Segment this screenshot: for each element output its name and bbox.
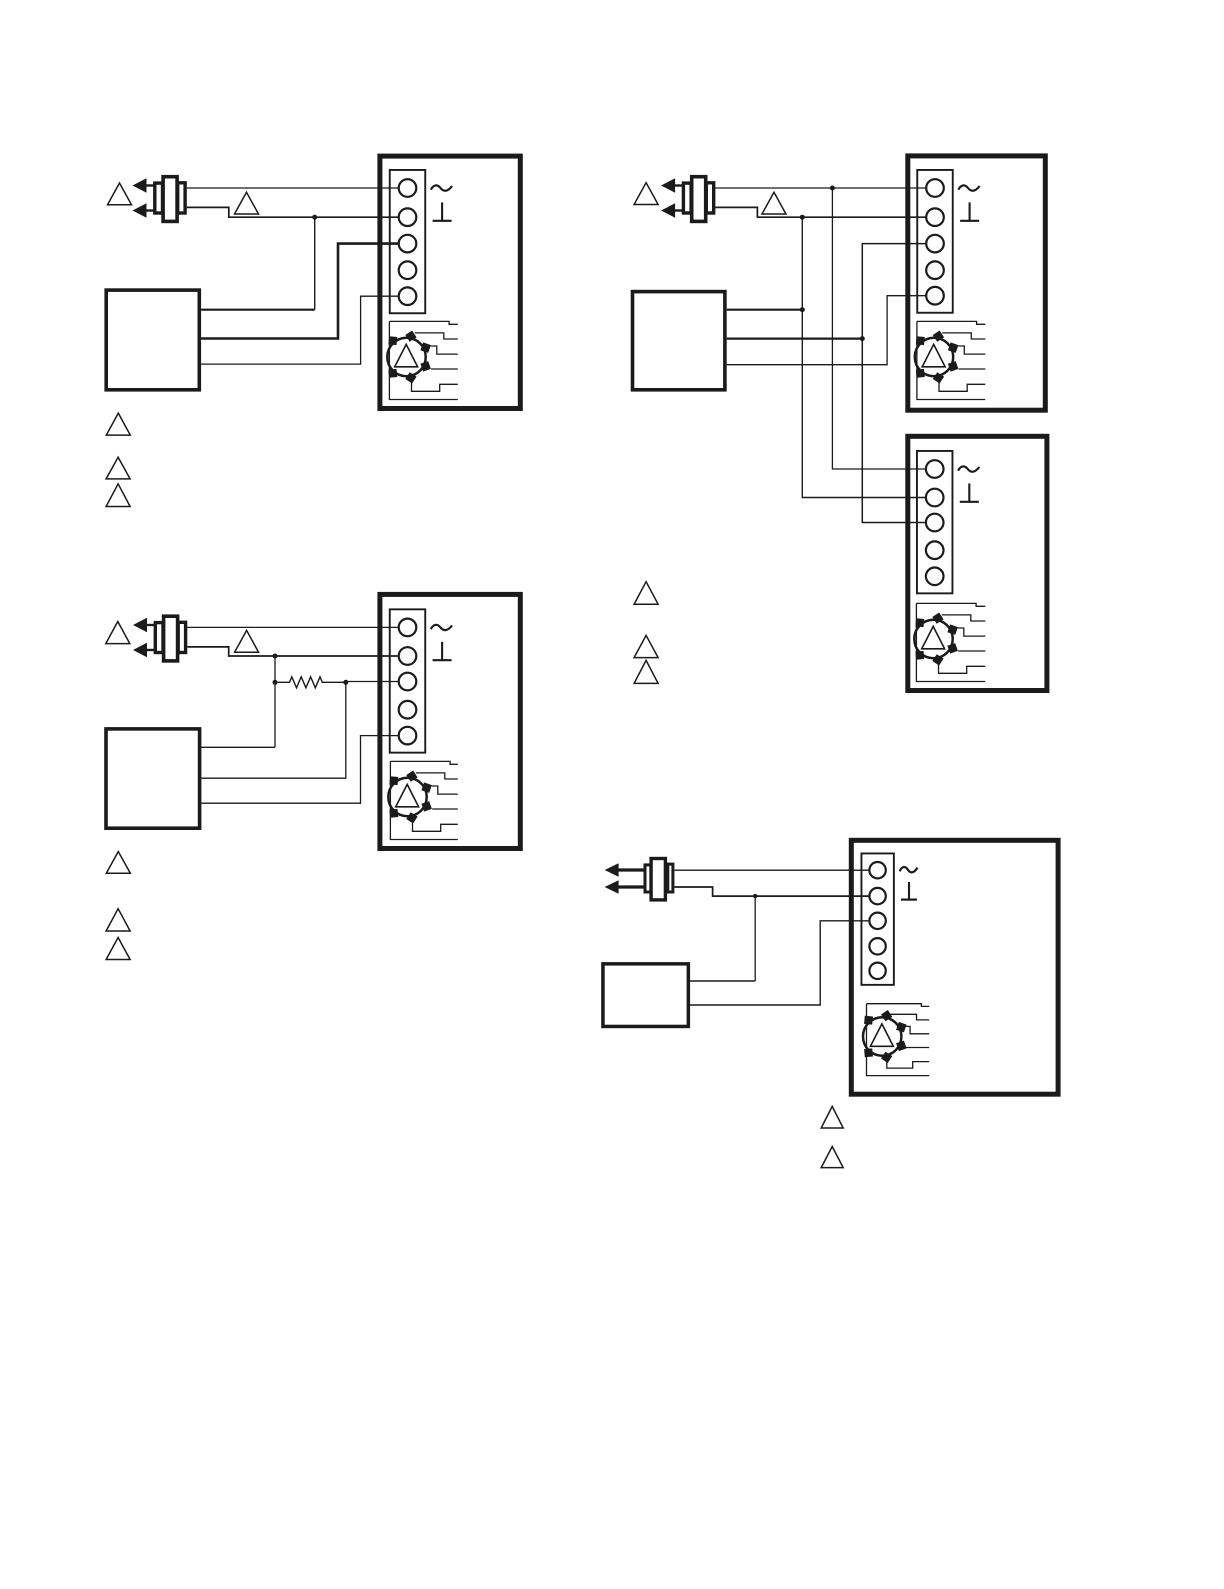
terminal TB3-2 (399, 647, 417, 665)
wire XF1 top to J1 (201, 309, 315, 311)
ground symbol TB4 (900, 867, 918, 872)
wire V4 to TB4 terminal 1 (674, 869, 869, 871)
transformer box XF3 (106, 729, 200, 828)
terminal TB2A-3 (926, 235, 944, 253)
rotary dial TB4 (863, 1010, 907, 1063)
terminal TB2B-5 (926, 568, 944, 586)
dial lead wires TB2B (916, 603, 985, 681)
terminal strip TB4 (861, 853, 893, 984)
thermostat box TB3 (380, 594, 520, 848)
wire V2 to TB2A terminal 1 (715, 187, 926, 189)
note triangle 2 (D4) (821, 1147, 843, 1168)
terminal strip TB2B (917, 451, 953, 593)
wire V1 to TB1 terminal 2 (187, 207, 399, 217)
wire XF3 top (201, 746, 275, 748)
wire V3 to TB3 terminal 1 (187, 626, 398, 628)
junction J3B (273, 680, 278, 685)
dial lead wires TB4 (867, 1004, 930, 1076)
wire V4 to TB4 terminal 2 (674, 887, 869, 896)
wire XF4 top to J4 (690, 980, 755, 982)
terminal TB4-5 (869, 963, 885, 979)
terminal TB1-3 (399, 235, 417, 253)
wire J1 down (314, 217, 316, 310)
transformer box XF1 (106, 290, 199, 390)
dial lead wires TB1 (389, 321, 457, 399)
terminal TB1-1 (399, 179, 417, 197)
callout triangle 1 (D2) (634, 183, 658, 205)
terminal TB3-4 (399, 701, 417, 719)
terminal TB2A-5 (926, 287, 944, 305)
junction J3A (273, 654, 278, 659)
wire R1 to TB3 terminal 3 (346, 681, 399, 683)
junction J1 (312, 215, 317, 220)
note triangle 1 (D2) (634, 582, 658, 605)
terminal TB3-1 (399, 619, 417, 637)
terminal strip TB2A (917, 170, 953, 313)
valve/actuator V3 (133, 616, 186, 661)
note triangle 2 (D3) (106, 909, 130, 931)
rotary dial TB1 (387, 331, 431, 384)
wire XF1 bottom to TB1 terminal 5 (201, 296, 399, 364)
terminal TB2A-2 (926, 208, 944, 226)
wire V1 to TB1 terminal 1 (187, 187, 399, 189)
terminal strip TB1 (390, 170, 426, 313)
ground symbol TB3 (431, 625, 452, 630)
wire J2A to TB2B terminal 1 (832, 188, 926, 469)
transformer box XF2 (633, 292, 725, 390)
note triangle 2 (D2) (634, 635, 658, 657)
terminal TB2B-4 (926, 541, 944, 559)
dial lead wires TB3 (390, 761, 457, 839)
wire XF2 mid to J2D (727, 338, 863, 340)
wire J4 down to XF4 (754, 896, 756, 981)
callout triangle 2 (D2) (762, 192, 786, 214)
wire J2B to TB2B terminal 2 (802, 217, 926, 497)
ground symbol TB2B (958, 466, 979, 471)
callout triangle 2 (D1) (235, 192, 259, 214)
note triangle 1 (D3) (106, 852, 130, 874)
rotary dial TB2B (914, 613, 958, 666)
note triangle 1 (D4) (821, 1106, 843, 1128)
terminal TB4-4 (869, 938, 885, 954)
valve/actuator V1 (133, 177, 186, 222)
terminal TB2B-3 (926, 514, 944, 532)
wire J3A down to XF3 (274, 656, 276, 747)
callout triangle 1 (D1) (108, 183, 132, 205)
wire TB2A terminal 3 to TB2B terminal 3 (862, 244, 926, 523)
thermostat box TB2A (908, 156, 1046, 410)
valve/actuator V4 (605, 859, 673, 900)
callout triangle 1 (D3) (106, 622, 130, 644)
terminal TB1-5 (399, 287, 417, 305)
wire XF4 bottom to TB4 terminal 3 (690, 921, 869, 1005)
note triangle 2 (D1) (106, 457, 130, 479)
terminal TB3-3 (399, 673, 417, 691)
junction J4 (753, 894, 757, 898)
note triangle 3 (D3) (106, 938, 130, 960)
terminal TB4-3 (869, 913, 885, 929)
dial lead wires TB2A (917, 321, 985, 399)
terminal TB2B-1 (926, 460, 944, 478)
thermostat box TB2B (908, 436, 1047, 690)
wire V2 to TB2A terminal 2 (715, 207, 926, 217)
note triangle 3 (D1) (106, 484, 130, 507)
ground symbol TB2A (958, 185, 979, 190)
wire XF3 bottom to TB3 terminal 5 (201, 736, 398, 804)
transformer box XF4 (603, 964, 688, 1027)
junction J3C (343, 680, 348, 685)
thermostat box TB1 (380, 156, 520, 408)
thermostat box TB4 (851, 840, 1058, 1094)
terminal strip TB3 (390, 609, 426, 752)
junction J2C (800, 307, 805, 312)
terminal TB4-1 (869, 862, 885, 878)
wire XF1 mid to TB1 terminal 3 (201, 244, 399, 339)
terminal TB1-4 (399, 261, 417, 279)
junction J2B (800, 215, 805, 220)
wire XF2 top to J2C (727, 309, 803, 311)
terminal TB2A-1 (926, 179, 944, 197)
terminal TB1-2 (399, 208, 417, 226)
terminal TB2A-4 (926, 261, 944, 279)
junction J2A (830, 186, 835, 191)
callout triangle 2 (D3) (235, 630, 259, 652)
resistor R1 (275, 677, 346, 688)
wire J3C to XF3 mid (201, 682, 345, 778)
terminal TB2B-2 (926, 489, 944, 507)
wire V3 to TB3 terminal 2 (187, 647, 398, 656)
valve/actuator V2 (661, 177, 714, 222)
ground symbol TB1 (431, 185, 452, 190)
note triangle 1 (D1) (106, 413, 130, 435)
wire XF2 bottom to TB2A terminal 5 (727, 296, 927, 365)
terminal TB3-5 (399, 727, 417, 745)
rotary dial TB3 (388, 771, 432, 824)
terminal TB4-2 (869, 888, 885, 904)
rotary dial TB2A (915, 331, 959, 384)
note triangle 3 (D2) (634, 660, 658, 683)
junction J2D (860, 336, 865, 341)
